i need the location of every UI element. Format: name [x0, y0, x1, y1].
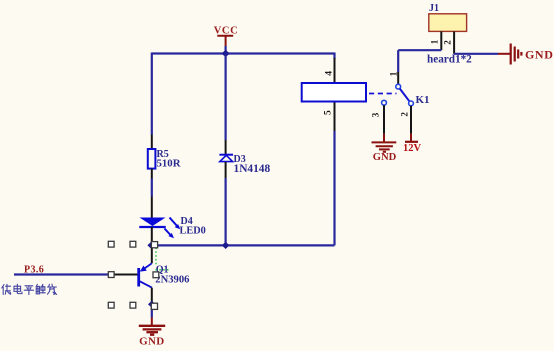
- svg-text:1: 1: [389, 71, 399, 76]
- ground GND (bottom): [139, 318, 165, 348]
- dashed mechanical link: [369, 93, 397, 95]
- svg-text:J1: J1: [429, 3, 439, 14]
- wire bottom horizontal: [152, 244, 335, 246]
- svg-text:2: 2: [400, 112, 410, 117]
- junction D3 bottom: [222, 242, 230, 249]
- wire left vertical (to R5): [151, 53, 153, 135]
- svg-text:LED0: LED0: [180, 226, 206, 237]
- wire top horizontal: [152, 52, 335, 54]
- 平: [24, 286, 33, 295]
- svg-text:5: 5: [324, 110, 334, 115]
- svg-text:GND: GND: [525, 47, 553, 61]
- wire VCC stem: [225, 46, 227, 54]
- power port VCC: [214, 26, 239, 47]
- svg-text:510R: 510R: [157, 157, 181, 169]
- transistor Q1: [108, 245, 190, 304]
- svg-text:2: 2: [443, 40, 453, 45]
- LED D4: [139, 197, 206, 246]
- junction VCC node: [222, 50, 230, 58]
- svg-text:4: 4: [325, 71, 335, 76]
- svg-text:K1: K1: [416, 94, 430, 106]
- resistor R5: [148, 135, 181, 179]
- junction LED node: [147, 242, 155, 249]
- annotation 低电平触发 (hand-drawn glyphs): [2, 284, 57, 294]
- 发: [47, 284, 56, 294]
- junction Q1 collector node: [148, 301, 156, 308]
- 电: [14, 284, 22, 293]
- selection dashes (green): [156, 248, 169, 270]
- svg-text:GND: GND: [373, 152, 397, 163]
- svg-text:1N4148: 1N4148: [234, 163, 271, 175]
- selection handles of Q1: [108, 241, 159, 309]
- relay coil K1: [302, 58, 366, 131]
- diode D3: [219, 54, 270, 246]
- wire right vertical (relay branch): [333, 53, 335, 246]
- wire J1 pin1 to K1: [398, 49, 441, 51]
- svg-text:3: 3: [371, 112, 381, 117]
- 低: [2, 284, 11, 294]
- svg-text:GND: GND: [139, 336, 164, 347]
- wire J1 pin2 to GND: [454, 53, 498, 55]
- wire R5 to D4: [151, 179, 153, 197]
- wire P3.6 to Q1 base: [14, 273, 108, 275]
- svg-text:1: 1: [430, 39, 440, 44]
- switch K1: [371, 50, 430, 133]
- ground GND (under K1 pin3): [372, 134, 397, 164]
- 触: [36, 284, 45, 294]
- svg-text:12V: 12V: [403, 143, 422, 154]
- power port 12V: [403, 134, 422, 154]
- svg-text:2N3906: 2N3906: [155, 274, 189, 285]
- connector J1: [429, 3, 467, 54]
- ground GND (right, sideways): [498, 44, 553, 65]
- svg-text:heard1*2: heard1*2: [427, 53, 472, 65]
- wire Q1 to GND: [151, 305, 153, 318]
